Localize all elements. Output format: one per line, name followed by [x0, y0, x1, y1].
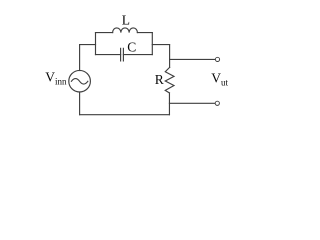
wire: capacitor branch left lead	[96, 54, 121, 56]
wire: bottom rail	[80, 114, 170, 116]
resistor R	[165, 67, 174, 93]
svg-text:C: C	[127, 40, 136, 55]
terminal: bottom output	[215, 101, 219, 105]
wire: top output lead	[170, 58, 216, 60]
svg-text:Vinn: Vinn	[45, 70, 67, 87]
source sine wave	[71, 79, 87, 85]
svg-text:L: L	[122, 12, 130, 27]
inductor L	[113, 28, 138, 33]
svg-text:Vut: Vut	[211, 70, 228, 87]
wire: inductor branch left lead	[96, 32, 113, 34]
wire: source bottom vertical	[79, 92, 81, 115]
wire: LC box left vertical	[95, 33, 97, 55]
source V1 circle	[69, 70, 91, 92]
svg-text:R: R	[155, 72, 164, 87]
wire: source top vertical	[79, 45, 81, 71]
wire: capacitor branch right lead	[123, 54, 152, 56]
wire: bottom output lead	[169, 102, 215, 104]
wire: LC box right stub	[152, 44, 169, 46]
wire: source to LC box left stub	[80, 44, 96, 46]
wire: LC box right vertical	[151, 33, 153, 55]
wire: right rail lower	[168, 93, 170, 115]
wire: right rail upper	[169, 45, 171, 68]
terminal: top output	[215, 57, 219, 61]
capacitor C	[121, 48, 124, 61]
wire: inductor branch right lead	[137, 32, 152, 34]
